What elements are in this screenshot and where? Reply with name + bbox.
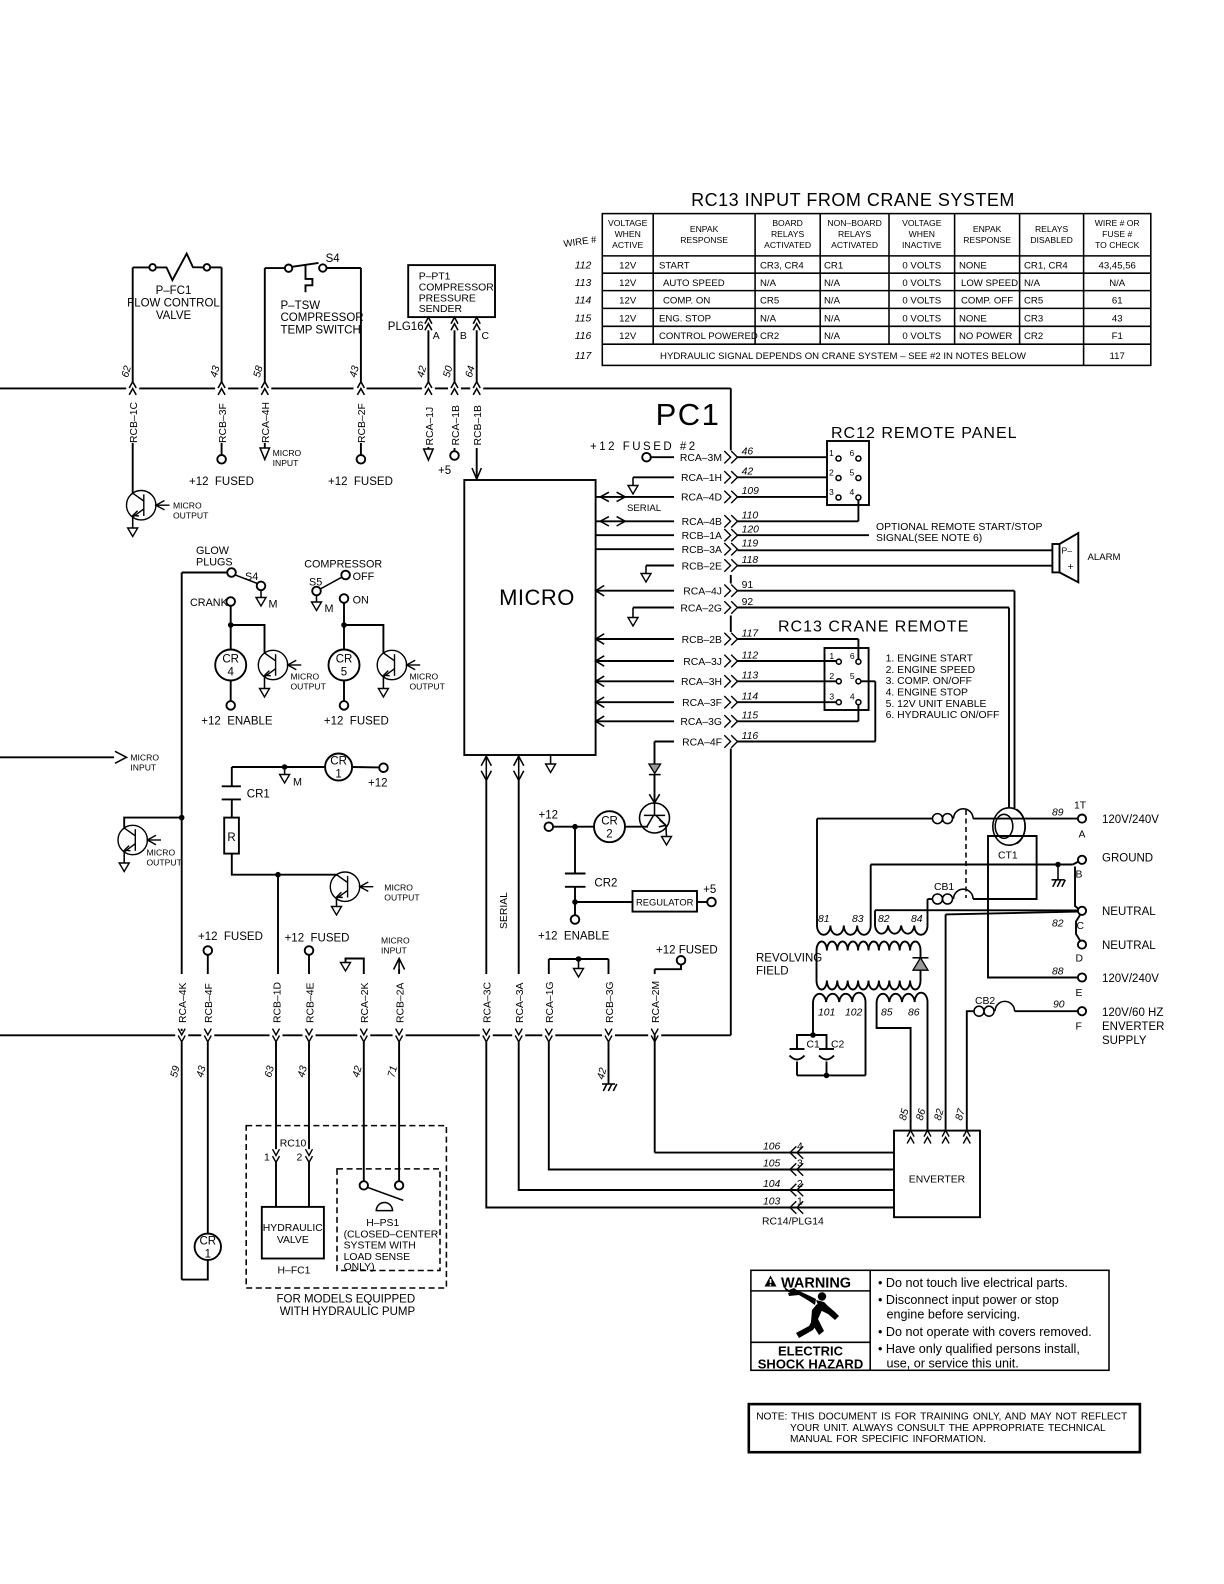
svg-text:RCB–1A: RCB–1A <box>682 531 722 542</box>
inner dashed box H-PS1 <box>337 1169 440 1271</box>
+12 terminal CR2 <box>553 826 594 828</box>
row 103 RC14 pin 1 <box>486 1042 894 1208</box>
wire down to CR1 contact <box>231 767 233 786</box>
svg-text:CR3, CR4: CR3, CR4 <box>760 261 804 272</box>
svg-text:HYDRAULIC: HYDRAULIC <box>263 1223 324 1234</box>
terminal F <box>1078 1007 1086 1015</box>
svg-text:S4: S4 <box>326 253 341 265</box>
svg-text:RESPONSE: RESPONSE <box>680 235 728 245</box>
svg-text:5: 5 <box>850 468 855 478</box>
svg-text:A: A <box>433 331 440 342</box>
bus3 chevrons <box>178 1029 658 1042</box>
svg-text:F: F <box>1076 1022 1082 1033</box>
svg-text:MICRO: MICRO <box>381 936 410 946</box>
wire 101 lead to C1/C2 <box>812 1002 814 1035</box>
svg-text:H–PS1: H–PS1 <box>366 1218 399 1229</box>
bus line 3 <box>0 1034 731 1036</box>
svg-text:E: E <box>1076 988 1083 999</box>
svg-text:3: 3 <box>829 692 834 702</box>
svg-text:INACTIVE: INACTIVE <box>902 240 942 250</box>
svg-text:SHOCK HAZARD: SHOCK HAZARD <box>758 1357 863 1372</box>
svg-text:81: 81 <box>818 914 830 925</box>
svg-text:CR1: CR1 <box>247 789 270 801</box>
svg-text:2: 2 <box>797 1179 803 1190</box>
svg-text:12V: 12V <box>619 296 637 307</box>
svg-text:120V/240V: 120V/240V <box>1102 814 1159 826</box>
svg-text:REVOLVING: REVOLVING <box>756 953 822 965</box>
row RCA-3J wire 112 <box>596 656 605 666</box>
switch S4 <box>235 575 258 584</box>
svg-text:61: 61 <box>1112 296 1123 307</box>
svg-text:CR3: CR3 <box>1024 313 1043 324</box>
node C1 top <box>810 1032 816 1038</box>
svg-text:RCA–3J: RCA–3J <box>683 657 722 668</box>
svg-text:RCA–3M: RCA–3M <box>680 453 722 464</box>
bus3 wire numbers <box>169 1065 400 1079</box>
svg-text:COMPRESSOR: COMPRESSOR <box>419 282 495 293</box>
svg-text:PLG16: PLG16 <box>388 321 424 333</box>
svg-text:+12: +12 <box>539 810 559 822</box>
svg-text:BOARD: BOARD <box>772 218 803 228</box>
RC12 connector box <box>827 441 869 505</box>
svg-text:42: 42 <box>742 467 754 478</box>
svg-text:1: 1 <box>829 651 834 661</box>
RCB-2F +12 fused <box>360 443 362 455</box>
row RCA-4B wire 110 serial <box>596 520 674 522</box>
svg-text:83: 83 <box>852 914 864 925</box>
S4 M ground <box>260 590 262 597</box>
bus line 1 <box>0 387 731 389</box>
pressure sender P-PT1 box <box>408 265 495 317</box>
svg-text:115: 115 <box>575 313 592 324</box>
svg-text:• Have only qualified persons: • Have only qualified persons install, <box>878 1342 1080 1356</box>
svg-text:6: 6 <box>850 651 855 661</box>
svg-text:46: 46 <box>742 447 754 458</box>
svg-text:SERIAL: SERIAL <box>499 892 510 929</box>
svg-text:FOR MODELS EQUIPPED: FOR MODELS EQUIPPED <box>277 1294 416 1306</box>
enverter top chevrons <box>907 1130 914 1143</box>
svg-text:CR5: CR5 <box>760 296 779 307</box>
CR1 +12 terminal <box>352 766 379 768</box>
transistor T4 micro output <box>118 825 161 854</box>
svg-text:ENVERTER: ENVERTER <box>909 1175 966 1186</box>
svg-text:1: 1 <box>205 1249 211 1261</box>
row RCA-4D wire 109 serial <box>596 496 674 498</box>
svg-text:+12 FUSED: +12 FUSED <box>324 716 389 728</box>
row RCA-2G wire 92 hook to CT1 <box>632 608 634 618</box>
svg-text:43,45,56: 43,45,56 <box>1099 261 1136 272</box>
svg-text:113: 113 <box>742 671 759 682</box>
svg-text:RCA–3F: RCA–3F <box>682 698 722 709</box>
svg-text:0 VOLTS: 0 VOLTS <box>902 296 941 307</box>
RCB-3F +12 fused <box>221 443 223 455</box>
table wire number rows 112-117 <box>575 261 593 362</box>
svg-text:RC13 INPUT FROM CRANE SYSTEM: RC13 INPUT FROM CRANE SYSTEM <box>691 190 1015 210</box>
CB1 mechanical dashed link <box>965 810 967 898</box>
svg-text:SERIAL: SERIAL <box>627 503 662 514</box>
row RCB-3A wire 119 to alarm <box>596 548 674 550</box>
svg-text:N/A: N/A <box>824 296 841 307</box>
transistor T6 (base up) <box>640 803 670 837</box>
svg-text:WHEN: WHEN <box>909 229 935 239</box>
wire 83 lead to B row <box>871 864 1073 866</box>
node CR2 branch <box>572 824 578 830</box>
MICRO bottom gnd stub <box>550 755 552 764</box>
svg-text:• Do not operate with covers r: • Do not operate with covers removed. <box>878 1325 1092 1339</box>
svg-text:RELAYS: RELAYS <box>771 229 805 239</box>
svg-text:103: 103 <box>763 1197 781 1208</box>
svg-text:N/A: N/A <box>824 278 841 289</box>
row RCA-3F wire 114 <box>596 697 605 707</box>
svg-text:CR: CR <box>330 756 347 768</box>
RC13 pins <box>836 659 861 705</box>
svg-text:0 VOLTS: 0 VOLTS <box>902 278 941 289</box>
wire RCA-1J <box>427 330 429 381</box>
svg-text:12V: 12V <box>619 331 637 342</box>
wire 91 down to CT1 <box>1014 591 1016 808</box>
RC10 chevrons <box>273 1149 280 1162</box>
svg-text:12V: 12V <box>619 278 637 289</box>
svg-text:ACTIVATED: ACTIVATED <box>764 240 811 250</box>
RCB-1D wire into valve <box>275 1042 277 1149</box>
svg-text:FLOW CONTROL: FLOW CONTROL <box>127 298 220 310</box>
svg-text:ON: ON <box>353 595 369 607</box>
svg-text:RCB–1D: RCB–1D <box>272 982 283 1023</box>
svg-text:5: 5 <box>850 671 855 681</box>
relay contact CR2 <box>565 873 586 875</box>
svg-text:OUTPUT: OUTPUT <box>384 893 420 903</box>
svg-text:RC14/PLG14: RC14/PLG14 <box>762 1217 824 1228</box>
row RCA-4J wire 91 to CT1 <box>596 586 605 596</box>
svg-text:RCB–1B: RCB–1B <box>473 405 484 445</box>
svg-text:+12 ENABLE: +12 ENABLE <box>201 716 273 728</box>
svg-text:P–FC1: P–FC1 <box>156 285 192 297</box>
field diode D2 <box>913 957 929 959</box>
warning label box <box>751 1270 1109 1370</box>
svg-text:82: 82 <box>878 914 890 925</box>
svg-text:5. 12V UNIT ENABLE: 5. 12V UNIT ENABLE <box>886 699 987 710</box>
relay coil CR1 bottom <box>195 1234 221 1260</box>
svg-text:RCA–3A: RCA–3A <box>515 983 526 1023</box>
svg-text:COMP. ON: COMP. ON <box>663 296 710 307</box>
svg-text:OFF: OFF <box>353 571 375 583</box>
svg-text:85: 85 <box>881 1008 893 1019</box>
svg-text:OUTPUT: OUTPUT <box>147 858 183 868</box>
svg-text:112: 112 <box>742 650 759 661</box>
svg-text:OUTPUT: OUTPUT <box>410 682 446 692</box>
svg-text:RCA–4K: RCA–4K <box>178 983 189 1023</box>
svg-text:PRESSURE: PRESSURE <box>419 293 476 304</box>
svg-text:• Do not touch live electrical: • Do not touch live electrical parts. <box>878 1276 1068 1290</box>
svg-text:+12 FUSED: +12 FUSED <box>328 476 393 488</box>
svg-text:NEUTRAL: NEUTRAL <box>1102 940 1156 952</box>
RCB-4E wire into valve <box>308 1042 310 1149</box>
RCA-4H micro input arrow <box>264 443 266 448</box>
wire RCB-1D down <box>277 875 279 974</box>
svg-text:RCA–4F: RCA–4F <box>682 737 722 748</box>
wire node to CR2 contact <box>574 827 576 874</box>
svg-text:CR2: CR2 <box>1024 331 1043 342</box>
svg-text:TEMP SWITCH: TEMP SWITCH <box>281 324 361 336</box>
regulator U2 <box>633 891 698 912</box>
relay coil CR1 <box>325 754 352 781</box>
svg-text:117: 117 <box>575 351 593 362</box>
breaker CB1 pole B <box>933 889 974 904</box>
MICRO box U1 <box>464 480 595 755</box>
svg-text:ENVERTER: ENVERTER <box>1102 1021 1164 1033</box>
svg-text:DISABLED: DISABLED <box>1030 235 1073 245</box>
svg-text:3: 3 <box>829 487 834 497</box>
svg-text:RCB–2B: RCB–2B <box>682 635 722 646</box>
wire RCB-1B <box>476 330 478 381</box>
svg-text:4: 4 <box>797 1142 803 1153</box>
row 105 RC14 pin 3 <box>549 1042 894 1170</box>
svg-text:92: 92 <box>742 597 754 608</box>
svg-text:CR: CR <box>601 816 618 828</box>
wire glow plugs to RCA-4K vertical <box>182 572 228 574</box>
svg-text:INPUT: INPUT <box>130 763 157 773</box>
svg-text:MICRO: MICRO <box>384 883 413 893</box>
RC13 legend list <box>886 654 1000 722</box>
svg-text:+5: +5 <box>703 884 716 896</box>
row RCB-2B wire 117 <box>596 634 605 644</box>
svg-text:CR1: CR1 <box>824 261 843 272</box>
svg-text:90: 90 <box>1053 1000 1065 1011</box>
svg-text:89: 89 <box>1052 808 1064 819</box>
svg-text:B: B <box>1076 870 1083 881</box>
svg-text:113: 113 <box>575 278 592 289</box>
temp switch P-TSW / S4 <box>265 263 361 382</box>
capacitor C1 <box>790 1035 814 1075</box>
svg-text:P–PT1: P–PT1 <box>419 272 451 283</box>
micro input bus 2 <box>0 756 114 758</box>
svg-text:+12 ENABLE: +12 ENABLE <box>538 931 610 943</box>
node B ground <box>1055 862 1061 868</box>
RCA-1G / RCB-3G bracket <box>549 958 609 960</box>
bus1 wire name labels <box>129 402 484 446</box>
svg-text:NEUTRAL: NEUTRAL <box>1102 906 1156 918</box>
svg-text:NONE: NONE <box>959 261 987 272</box>
svg-text:RC12 REMOTE PANEL: RC12 REMOTE PANEL <box>831 425 1018 442</box>
node ON/CR5 <box>341 622 347 628</box>
svg-text:101: 101 <box>818 1008 835 1019</box>
alarm speaker LS1 <box>1052 533 1078 582</box>
svg-text:RCB–2F: RCB–2F <box>357 403 368 443</box>
ground T1 <box>128 528 138 537</box>
svg-text:GROUND: GROUND <box>1102 853 1153 865</box>
svg-text:84: 84 <box>911 914 923 925</box>
terminal B <box>1073 862 1079 865</box>
svg-text:N/A: N/A <box>1024 278 1041 289</box>
svg-text:+5: +5 <box>438 465 451 477</box>
svg-text:0 VOLTS: 0 VOLTS <box>902 313 941 324</box>
svg-text:2. ENGINE SPEED: 2. ENGINE SPEED <box>886 665 976 676</box>
RCB-3G wire 42 to ground <box>608 1042 610 1084</box>
svg-text:S4: S4 <box>245 571 258 583</box>
revolving field winding <box>817 941 921 989</box>
svg-text:102: 102 <box>845 1008 863 1019</box>
svg-text:SIGNAL(SEE NOTE 6): SIGNAL(SEE NOTE 6) <box>876 533 982 544</box>
svg-text:START: START <box>659 261 690 272</box>
svg-text:120V/60 HZ: 120V/60 HZ <box>1102 1007 1163 1019</box>
svg-text:RC10: RC10 <box>280 1139 307 1150</box>
svg-text:HYDRAULIC SIGNAL DEPENDS ON CR: HYDRAULIC SIGNAL DEPENDS ON CRANE SYSTEM… <box>660 351 1027 362</box>
ground T3 <box>378 689 388 698</box>
svg-text:ENPAK: ENPAK <box>973 224 1002 234</box>
svg-text:CR5: CR5 <box>1024 296 1043 307</box>
transistor T2 micro output <box>258 650 301 679</box>
svg-text:2: 2 <box>297 1153 303 1164</box>
resistor R <box>224 818 239 854</box>
svg-text:MICRO: MICRO <box>291 672 320 682</box>
bus1 chevrons <box>129 382 480 395</box>
svg-text:CR: CR <box>336 654 353 666</box>
+5 terminal regulator <box>697 901 707 903</box>
svg-text:12V: 12V <box>619 313 637 324</box>
svg-text:C2: C2 <box>831 1040 845 1051</box>
wire diode to T6 with arrow <box>654 775 656 803</box>
svg-text:RCB–3G: RCB–3G <box>605 981 616 1023</box>
svg-text:+12 FUSED #2: +12 FUSED #2 <box>590 441 698 453</box>
svg-text:ENPAK: ENPAK <box>690 224 719 234</box>
svg-text:PC1: PC1 <box>656 397 721 432</box>
svg-text:RCA–3G: RCA–3G <box>680 717 722 728</box>
svg-text:RCB–3F: RCB–3F <box>218 403 229 443</box>
wire crank to CR4 <box>230 606 232 650</box>
svg-text:N/A: N/A <box>824 313 841 324</box>
ON terminal <box>340 594 349 603</box>
ground T4 <box>119 863 129 872</box>
svg-text:SENDER: SENDER <box>419 304 463 315</box>
bus3 wire name labels <box>178 981 662 1023</box>
svg-text:RCA–2G: RCA–2G <box>680 604 722 615</box>
current transformer CT1 <box>993 808 1025 845</box>
svg-text:119: 119 <box>742 539 759 550</box>
svg-text:• Disconnect input power or st: • Disconnect input power or stop <box>878 1293 1059 1307</box>
row RCA-3M wire 46 <box>651 456 674 458</box>
ground T5 <box>332 907 342 916</box>
svg-text:M: M <box>325 603 334 615</box>
node RCB-1D top <box>275 872 281 878</box>
stator winding 82-84 <box>875 899 928 935</box>
wire contact to +12 enable <box>574 887 576 915</box>
svg-text:+12 FUSED: +12 FUSED <box>285 933 350 945</box>
svg-text:M: M <box>269 599 278 611</box>
wire 86 lead to enverter <box>927 1002 929 1132</box>
svg-text:GLOW: GLOW <box>196 545 230 557</box>
svg-text:1. ENGINE START: 1. ENGINE START <box>886 654 974 665</box>
svg-text:INPUT: INPUT <box>381 946 408 956</box>
svg-text:P–TSW: P–TSW <box>281 300 321 312</box>
terminal E <box>1078 973 1086 981</box>
svg-text:104: 104 <box>763 1179 781 1190</box>
svg-text:RCB–4F: RCB–4F <box>204 983 215 1023</box>
note box <box>749 1404 1140 1452</box>
svg-text:CR1, CR4: CR1, CR4 <box>1024 261 1068 272</box>
svg-text:2: 2 <box>829 671 834 681</box>
svg-text:REGULATOR: REGULATOR <box>636 897 694 908</box>
svg-text:CR: CR <box>199 1236 216 1248</box>
row RCA-3H wire 113 <box>596 676 605 686</box>
svg-text:2: 2 <box>829 468 834 478</box>
shock hazard pictogram <box>784 1287 839 1338</box>
CR1 bottom loop wire <box>182 1260 208 1280</box>
wire +12 fused to RCA-2M <box>655 965 681 970</box>
svg-text:CR2: CR2 <box>594 878 617 890</box>
wire 84 lead to CB1 pole B <box>928 898 933 900</box>
row 104 RC14 pin 2 <box>519 1042 894 1190</box>
svg-text:SYSTEM WITH: SYSTEM WITH <box>344 1241 416 1252</box>
relay coil CR4 <box>215 650 246 681</box>
svg-text:4: 4 <box>227 667 234 679</box>
warning title <box>765 1276 777 1287</box>
svg-text:+12 FUSED: +12 FUSED <box>198 931 263 943</box>
svg-text:112: 112 <box>575 261 592 272</box>
+5 terminal <box>450 451 459 460</box>
svg-text:engine before servicing.: engine before servicing. <box>887 1308 1021 1322</box>
relay coil CR5 <box>329 650 360 681</box>
svg-text:RCA–4B: RCA–4B <box>682 517 722 528</box>
+12 enable terminal <box>571 915 580 924</box>
svg-text:FUSE #: FUSE # <box>1102 229 1132 239</box>
svg-text:110: 110 <box>742 511 759 522</box>
svg-text:ACTIVATED: ACTIVATED <box>831 240 878 250</box>
svg-text:RCA–1B: RCA–1B <box>451 405 462 445</box>
svg-text:109: 109 <box>742 486 760 497</box>
svg-text:B: B <box>460 331 467 342</box>
svg-text:VALVE: VALVE <box>277 1235 309 1246</box>
RCB-1C wire to transistor <box>132 443 134 493</box>
transistor T5 micro output <box>330 872 373 901</box>
svg-text:RELAYS: RELAYS <box>838 229 872 239</box>
svg-text:CRANK: CRANK <box>190 597 229 609</box>
svg-text:RCA–3C: RCA–3C <box>483 982 494 1023</box>
warning bullets <box>878 1276 1092 1371</box>
ground T2 <box>260 689 270 698</box>
svg-text:TO CHECK: TO CHECK <box>1095 240 1140 250</box>
svg-text:use, or service this unit.: use, or service this unit. <box>887 1357 1019 1371</box>
CR1 coil left wire and node <box>232 766 325 768</box>
svg-text:+12 FUSED: +12 FUSED <box>656 945 718 957</box>
wire R to node RCB-1D <box>232 854 337 875</box>
svg-text:COMP. OFF: COMP. OFF <box>961 296 1013 307</box>
table frame <box>602 214 1151 366</box>
S5 M ground <box>316 595 318 602</box>
svg-text:0 VOLTS: 0 VOLTS <box>902 261 941 272</box>
svg-text:RCA–1H: RCA–1H <box>681 473 722 484</box>
svg-text:YOUR UNIT. ALWAYS CONSULT THE: YOUR UNIT. ALWAYS CONSULT THE APPROPRIAT… <box>790 1423 1106 1434</box>
wire RCA-4F down from row 116 <box>654 742 656 765</box>
svg-text:RCB–3A: RCB–3A <box>682 545 722 556</box>
svg-text:RCA–4J: RCA–4J <box>683 587 722 598</box>
svg-text:VALVE: VALVE <box>156 310 192 322</box>
svg-text:116: 116 <box>575 331 592 342</box>
wire 82 lead C row <box>875 909 1078 911</box>
svg-text:6. HYDRAULIC ON/OFF: 6. HYDRAULIC ON/OFF <box>886 710 1000 721</box>
enverter wire numbers <box>898 1107 968 1122</box>
transistor T3 micro output <box>377 650 420 679</box>
svg-text:LOW SPEED: LOW SPEED <box>961 278 1018 289</box>
svg-text:RCB–2A: RCB–2A <box>395 983 406 1023</box>
wire 85 lead to enverter <box>877 1002 911 1132</box>
svg-text:MICRO: MICRO <box>273 448 302 458</box>
svg-text:117: 117 <box>742 628 760 639</box>
RCB-2A wire to H-PS1 <box>398 1042 400 1181</box>
svg-text:RCA–4D: RCA–4D <box>681 493 722 504</box>
svg-text:ALARM: ALARM <box>1088 552 1121 563</box>
svg-text:MICRO: MICRO <box>130 753 159 763</box>
svg-text:CB2: CB2 <box>975 996 995 1007</box>
